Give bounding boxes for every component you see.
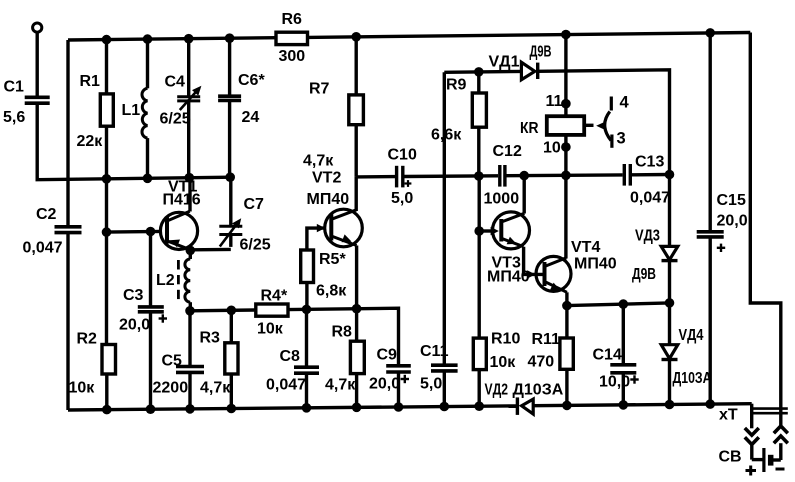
wire VD3 to VD4 (668, 261, 671, 345)
svg-text:КR: КR (520, 120, 539, 137)
svg-text:R10: R10 (491, 331, 520, 348)
svg-text:C13: C13 (635, 154, 664, 171)
svg-text:6,8к: 6,8к (316, 283, 347, 300)
plus mark C14 (630, 378, 638, 380)
wire mid row right of R4 down to C9 (288, 308, 399, 366)
svg-text:R9: R9 (446, 77, 467, 94)
svg-text:Д9В: Д9В (632, 266, 656, 283)
plus mark C15 (717, 247, 725, 249)
wire left rail lower (C2 to bottom bus) (66, 233, 69, 410)
resistor R5 (301, 250, 314, 283)
wire R9 node down to VT3 base node (478, 176, 481, 231)
capacitor C12 (498, 165, 501, 187)
junction dots on tank bus (102, 174, 112, 184)
connector XT separation lines (751, 407, 788, 410)
svg-text:МП40: МП40 (307, 191, 350, 208)
svg-text:10к: 10к (490, 354, 517, 371)
inductor L2 coil (185, 259, 190, 302)
svg-text:10,0: 10,0 (599, 374, 630, 391)
svg-text:C4: C4 (165, 74, 186, 91)
svg-text:C9: C9 (377, 347, 398, 364)
relay coil pin 10 wire (564, 135, 567, 175)
junction dots emitter row (562, 301, 572, 311)
wire VT4 emitter down (565, 292, 568, 305)
svg-text:C2: C2 (36, 206, 57, 223)
plus mark C3 (159, 317, 167, 319)
wire top supply bus left section (68, 38, 276, 40)
svg-text:R6: R6 (282, 11, 303, 28)
svg-text:VT2: VT2 (312, 170, 341, 187)
svg-text:L2: L2 (156, 272, 175, 289)
inductor L2 lead from emitter (189, 250, 192, 259)
resistor R3 (225, 343, 238, 374)
svg-text:R8: R8 (332, 324, 353, 341)
svg-text:VД4: VД4 (679, 327, 704, 344)
svg-text:C14: C14 (593, 347, 622, 364)
resistor R11 column (565, 306, 568, 338)
wire VD3 top lead (668, 175, 671, 247)
diode VD2 (series in ground bus) (516, 397, 519, 415)
diode VD1 (521, 62, 534, 79)
svg-text:4,7к: 4,7к (303, 153, 334, 170)
wire emitter row (VT4 emitter to VD3 node) (567, 303, 670, 306)
svg-text:VД2: VД2 (485, 382, 509, 399)
capacitor C4 column wire (187, 39, 190, 97)
svg-text:R3: R3 (200, 330, 221, 347)
relay K coil (547, 116, 584, 135)
svg-text:10: 10 (543, 140, 561, 157)
capacitor C1 (25, 96, 50, 100)
inductor L1 leads (146, 39, 149, 88)
wire VT4 collector up to relay node (564, 175, 567, 258)
svg-text:10к: 10к (69, 380, 96, 397)
resistor R8 column (355, 309, 358, 342)
wire VT3 emitter to VT4 base (524, 247, 545, 275)
plus mark C10 (405, 182, 412, 184)
svg-text:300: 300 (279, 48, 306, 65)
svg-text:4,7к: 4,7к (200, 380, 231, 397)
capacitor C7 trimmer plates (219, 225, 242, 228)
resistor R9 (472, 93, 486, 127)
capacitor C6 (218, 94, 241, 98)
wire C12 to C13 (collectors node) (507, 173, 623, 177)
resistor R6 (in top bus) (276, 32, 308, 44)
svg-text:VT4: VT4 (571, 239, 600, 256)
junction dots signal row (474, 171, 484, 181)
svg-text:24: 24 (242, 109, 260, 126)
svg-text:20,0: 20,0 (717, 213, 748, 230)
junction dots mid row (185, 306, 195, 316)
svg-text:0,047: 0,047 (23, 239, 63, 256)
svg-text:VД3: VД3 (635, 228, 660, 245)
wire right rail from top bus (750, 33, 781, 414)
svg-text:C11: C11 (420, 343, 449, 360)
wire C1 to tank bus (node A) (37, 103, 231, 180)
resistor R10 (473, 338, 486, 370)
svg-text:20,0: 20,0 (369, 376, 400, 393)
inductor L2 core (dashed) (177, 260, 180, 270)
capacitor C3 column wire (149, 232, 152, 307)
svg-text:R4*: R4* (261, 288, 288, 305)
junction dot R9 top node (474, 67, 484, 77)
capacitor C7 column wire (229, 177, 232, 226)
capacitor C14 column wire (622, 304, 625, 365)
wire C7 to VT1 emitter (191, 248, 231, 252)
wire antenna lead down to C1 (36, 32, 39, 97)
relay K coil pin 11 wire from top bus (564, 35, 567, 117)
resistor R2 (102, 345, 116, 375)
resistor R8 (350, 341, 364, 373)
svg-text:C10: C10 (388, 147, 417, 164)
capacitor C3 (138, 305, 164, 309)
resistor R11 (560, 338, 573, 369)
wire VT2 emitter (355, 246, 358, 309)
resistor R5 column and VT2 base wire (307, 228, 325, 309)
transistor VT2 (317, 209, 363, 247)
svg-text:C3: C3 (123, 287, 144, 304)
relay contact pin 3 (610, 135, 613, 148)
capacitor C4 trimmer plates (177, 95, 200, 98)
junction dot VT1 emitter node (186, 246, 196, 256)
connector XT pin left (down) (750, 404, 753, 429)
svg-text:4: 4 (620, 94, 630, 112)
transistor VT1 (160, 211, 197, 250)
svg-text:R2: R2 (77, 331, 98, 348)
svg-text:R11: R11 (532, 331, 561, 348)
resistor R3 column (230, 310, 233, 343)
plus mark C9 (401, 378, 409, 380)
battery plus mark (746, 466, 757, 476)
wire bottom ground bus left section (68, 406, 517, 410)
wire bottom ground bus right section (after VD2) (533, 404, 752, 406)
svg-text:5,0: 5,0 (391, 190, 413, 207)
svg-text:20,0: 20,0 (119, 317, 150, 334)
junction dot VT3 base (474, 226, 484, 236)
wire VT1 collector to tank bus (188, 178, 191, 212)
resistor R1 column wire (105, 40, 108, 94)
wire R2 to bottom bus (105, 374, 108, 410)
svg-text:6,6к: 6,6к (431, 127, 462, 144)
svg-text:R5*: R5* (319, 251, 346, 268)
svg-text:П416: П416 (163, 192, 201, 209)
battery minus mark (776, 468, 785, 471)
capacitor C8 (294, 365, 319, 369)
resistor R7 (349, 95, 364, 125)
svg-text:C1: C1 (4, 79, 25, 96)
relay pin 11 dot (561, 99, 571, 109)
capacitor C14 (610, 363, 636, 367)
relay pin 10 dot (561, 142, 571, 152)
svg-text:1000: 1000 (484, 191, 520, 208)
svg-text:хТ: хТ (719, 407, 738, 424)
capacitor C4 trimmer arrow (180, 88, 199, 110)
capacitor C15 column wire (709, 33, 712, 232)
junction dot VT1 base node (102, 227, 112, 237)
wire VD1 cathode to right column (538, 70, 670, 175)
svg-text:СВ: СВ (719, 449, 742, 466)
capacitor C6 column wire (228, 38, 231, 96)
wire C11 top connection (443, 72, 446, 365)
svg-text:C6*: C6* (238, 72, 265, 89)
wire top supply bus right section (after R6) (308, 33, 751, 38)
svg-text:4,7к: 4,7к (325, 377, 356, 394)
svg-text:L1: L1 (122, 102, 141, 119)
svg-text:11: 11 (546, 93, 563, 110)
wire L2 to mid node (189, 302, 192, 311)
svg-text:2200: 2200 (153, 380, 189, 397)
capacitor C10 (395, 166, 398, 188)
svg-text:5,6: 5,6 (3, 109, 25, 126)
capacitor C8 column wire (305, 309, 308, 367)
transistor VT3 (491, 212, 530, 249)
wire VT3 base (479, 229, 492, 232)
resistor R10 column (478, 231, 481, 338)
battery GB (SB) (752, 458, 764, 461)
junction dots bottom bus (102, 405, 112, 415)
svg-text:10к: 10к (257, 321, 284, 338)
svg-text:Д10ЗА: Д10ЗА (513, 382, 564, 399)
svg-text:Д10ЗА: Д10ЗА (673, 370, 712, 387)
wire VT1 base (107, 230, 163, 234)
svg-text:C15: C15 (717, 192, 746, 209)
capacitor C11 (431, 363, 458, 367)
svg-text:R1: R1 (80, 73, 101, 90)
diode VD4 (661, 345, 678, 359)
antenna terminal (33, 23, 42, 32)
wire VT2 collector (355, 177, 358, 211)
transistor VT4 (536, 256, 571, 292)
capacitor C2 (in series with left rail) (55, 225, 82, 229)
resistor R1 (100, 94, 113, 126)
inductor L1 coil (142, 88, 148, 138)
svg-text:C7: C7 (244, 196, 265, 213)
wire VT3 collector up to node (523, 176, 526, 214)
relay contact stub (584, 124, 593, 127)
capacitor C13 (623, 164, 626, 186)
resistor R9 column wire (477, 72, 480, 93)
wire C10 to C12 (through R9 node) (404, 174, 498, 178)
svg-text:C12: C12 (493, 143, 522, 160)
capacitor C7 trimmer arrow (220, 221, 239, 247)
svg-text:Д9В: Д9В (530, 44, 552, 61)
capacitor C5 (176, 365, 204, 369)
svg-text:0,047: 0,047 (266, 377, 306, 394)
wire signal row VT2 collector to C10 (356, 175, 395, 179)
svg-text:VД1: VД1 (489, 54, 520, 71)
resistor R7 column wire (355, 37, 358, 95)
connector XT pin right (up) (779, 413, 782, 426)
svg-text:0,047: 0,047 (630, 190, 670, 207)
svg-text:3: 3 (617, 130, 626, 148)
svg-text:470: 470 (528, 354, 555, 371)
relay contact blade (605, 112, 611, 141)
wire left rail upper (top bus to C2) (66, 40, 69, 227)
capacitor C5 column wire (188, 311, 191, 367)
wire C13 right to VD column (632, 173, 670, 177)
diode VD3 (661, 246, 678, 259)
wire VD4 to bottom bus (668, 360, 671, 405)
wire mid row left (L2 / R3 / R4) (190, 308, 256, 312)
svg-text:C5: C5 (162, 353, 183, 370)
svg-text:6/25: 6/25 (160, 111, 191, 128)
capacitor C15 (697, 230, 724, 234)
svg-text:5,0: 5,0 (420, 376, 442, 393)
svg-text:6/25: 6/25 (240, 237, 271, 254)
svg-text:R7: R7 (309, 81, 330, 98)
svg-text:МП40: МП40 (574, 256, 617, 273)
capacitor C9 (386, 364, 411, 368)
relay contact pin 4 (610, 97, 613, 111)
svg-text:C8: C8 (280, 348, 301, 365)
junction dots on top bus (102, 35, 112, 45)
wire VD1 anode wire from C11 corner (444, 70, 521, 74)
resistor R4 (series in mid row) (256, 304, 288, 316)
svg-text:22к: 22к (77, 133, 104, 150)
